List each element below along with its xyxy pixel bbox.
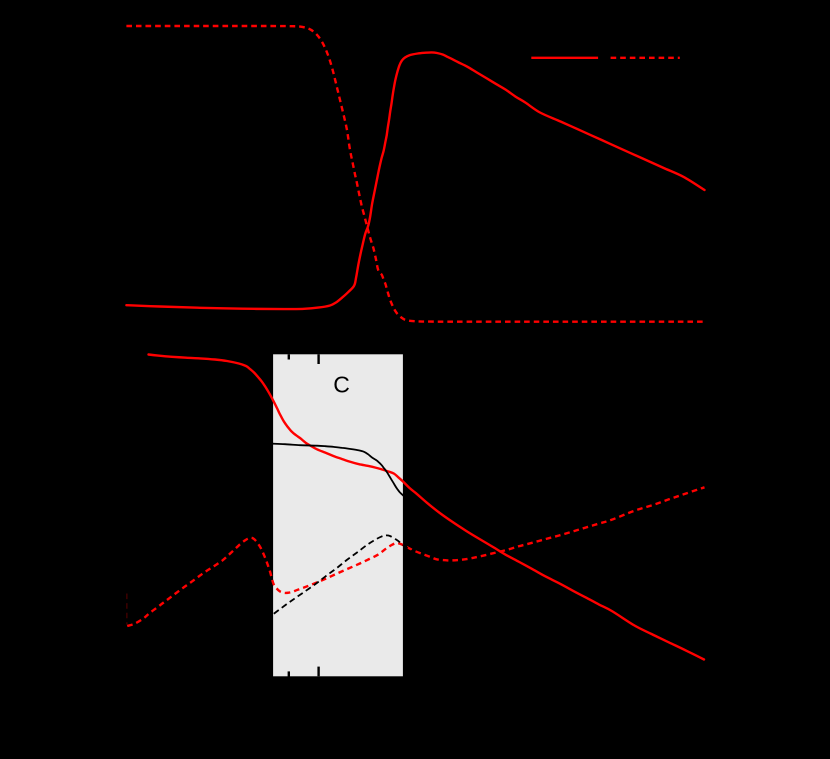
tick bottom major (317, 667, 319, 677)
top panel solid red curve (126, 52, 704, 309)
bottom panel solid red curve (149, 355, 705, 660)
svg-text:C: C (333, 372, 350, 398)
legend dashed sample (611, 57, 680, 59)
black solid curve (266, 444, 410, 502)
tick top minor (288, 354, 290, 359)
shaded band C (273, 354, 403, 676)
tick bottom minor (288, 671, 290, 676)
bottom dashed clipped edge segment (126, 594, 128, 625)
bottom panel dashed red curve (127, 487, 704, 626)
legend solid sample (531, 57, 598, 59)
black dashed curve (266, 535, 430, 619)
tick top major (317, 354, 319, 364)
top panel dashed red curve (126, 26, 705, 322)
